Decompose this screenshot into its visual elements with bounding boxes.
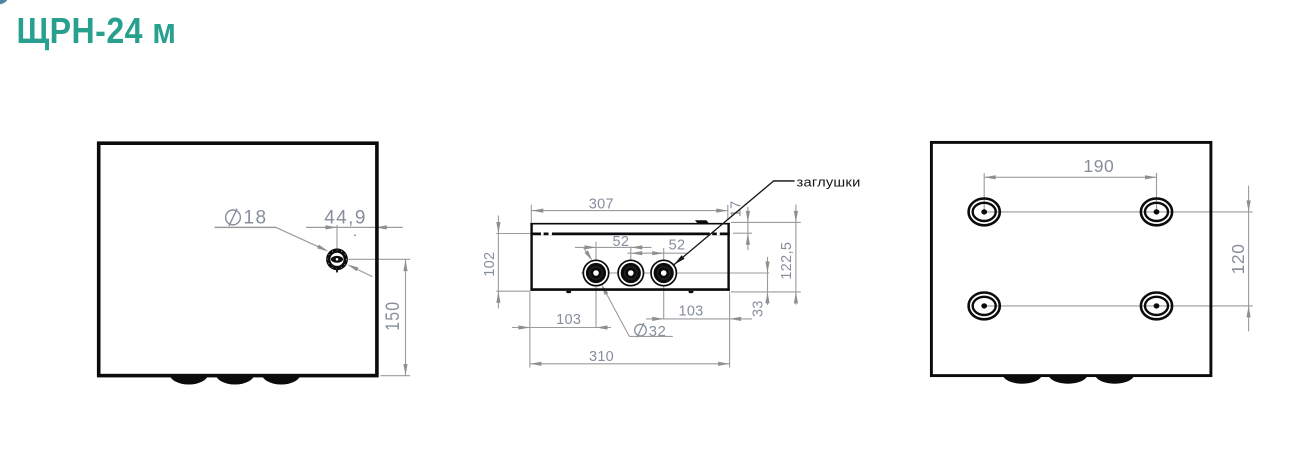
svg-text:52: 52	[613, 234, 630, 250]
svg-text:103: 103	[678, 304, 703, 320]
svg-text:32: 32	[649, 323, 667, 340]
svg-text:заглушки: заглушки	[797, 175, 861, 190]
svg-text:102: 102	[482, 252, 498, 277]
svg-text:17: 17	[728, 201, 744, 218]
svg-text:33: 33	[750, 300, 766, 317]
svg-text:120: 120	[1228, 243, 1248, 274]
svg-text:103: 103	[556, 312, 581, 328]
svg-text:18: 18	[244, 207, 268, 228]
svg-text:44,9: 44,9	[324, 207, 367, 228]
svg-text:122,5: 122,5	[779, 242, 795, 280]
svg-text:52: 52	[669, 238, 686, 254]
svg-text:310: 310	[589, 349, 614, 365]
svg-text:150: 150	[383, 301, 404, 331]
svg-text:190: 190	[1083, 156, 1114, 176]
svg-text:ЩРН-24 м: ЩРН-24 м	[17, 10, 177, 51]
